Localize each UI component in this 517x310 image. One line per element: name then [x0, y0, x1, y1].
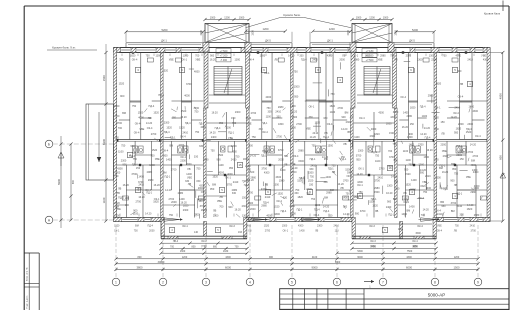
svg-text:1400: 1400	[299, 230, 305, 233]
svg-text:7: 7	[382, 280, 384, 284]
svg-text:2300: 2300	[164, 121, 170, 124]
svg-text:8: 8	[434, 280, 436, 284]
svg-text:УВЕ: УВЕ	[228, 137, 233, 140]
svg-text:163: 163	[238, 231, 243, 234]
svg-text:1100: 1100	[102, 197, 106, 203]
svg-text:4: 4	[249, 280, 251, 284]
svg-text:ПД-1: ПД-1	[118, 197, 124, 200]
svg-text:ПД-1: ПД-1	[158, 94, 164, 97]
svg-text:1400: 1400	[469, 105, 475, 108]
svg-text:2300: 2300	[183, 209, 189, 212]
svg-text:4300: 4300	[292, 116, 298, 119]
svg-text:330: 330	[435, 128, 440, 131]
svg-text:14.20: 14.20	[470, 144, 477, 147]
svg-text:1520: 1520	[114, 225, 120, 228]
svg-text:900: 900	[249, 144, 254, 147]
svg-text:1520: 1520	[246, 117, 252, 120]
svg-text:ВМ: ВМ	[212, 184, 216, 187]
svg-text:4000: 4000	[200, 126, 206, 129]
svg-text:800: 800	[192, 246, 197, 249]
svg-text:ЛВ: ЛВ	[315, 230, 319, 233]
svg-text:ОК-1: ОК-1	[358, 167, 364, 170]
svg-text:1300: 1300	[424, 156, 430, 159]
svg-text:3400: 3400	[370, 246, 376, 249]
svg-text:4000: 4000	[138, 117, 144, 120]
svg-text:16.20: 16.20	[402, 126, 409, 129]
svg-text:150: 150	[297, 179, 302, 182]
svg-text:16.20: 16.20	[201, 209, 208, 212]
svg-text:900: 900	[457, 70, 462, 73]
svg-text:16.20: 16.20	[180, 116, 187, 119]
svg-text:330: 330	[199, 145, 204, 148]
svg-text:1820: 1820	[456, 128, 462, 131]
svg-text:ПД-1: ПД-1	[165, 175, 171, 178]
note krovlya balk left	[47, 46, 97, 51]
svg-text:1400: 1400	[138, 175, 144, 178]
svg-text:1400: 1400	[401, 213, 407, 216]
svg-text:3700: 3700	[186, 83, 192, 86]
svg-text:ОК-1: ОК-1	[403, 201, 409, 204]
interior cross walls	[161, 53, 437, 218]
svg-text:2980: 2980	[148, 179, 154, 182]
svg-text:2700: 2700	[337, 107, 343, 110]
svg-text:2000: 2000	[186, 163, 192, 166]
svg-text:2410: 2410	[470, 225, 476, 228]
svg-text:1300: 1300	[149, 164, 155, 167]
svg-text:ОК-4: ОК-4	[147, 127, 153, 130]
svg-text:1500: 1500	[374, 191, 380, 194]
svg-text:4300: 4300	[472, 110, 478, 113]
svg-text:ПД-4: ПД-4	[323, 136, 329, 139]
svg-text:4000: 4000	[371, 128, 377, 131]
svg-text:ВМ: ВМ	[451, 163, 455, 166]
svg-text:1300: 1300	[387, 184, 393, 187]
svg-text:ЛВ: ЛВ	[275, 59, 279, 62]
wall junction blobs	[116, 51, 490, 176]
svg-text:1300: 1300	[417, 59, 423, 62]
svg-text:4300: 4300	[276, 176, 282, 179]
svg-text:6000: 6000	[357, 256, 363, 259]
svg-text:750: 750	[311, 198, 316, 201]
svg-text:2410: 2410	[231, 159, 237, 162]
svg-text:1100: 1100	[218, 164, 224, 167]
svg-text:1500: 1500	[354, 196, 360, 199]
svg-text:ПД-4: ПД-4	[149, 105, 155, 108]
svg-text:5: 5	[291, 280, 293, 284]
svg-text:4300: 4300	[378, 112, 384, 115]
svg-text:ПД-4: ПД-4	[457, 145, 463, 148]
svg-text:ВМ: ВМ	[324, 196, 328, 199]
svg-text:2980: 2980	[203, 158, 209, 161]
svg-text:700: 700	[195, 55, 200, 58]
svg-text:ПД-4: ПД-4	[281, 210, 287, 213]
svg-text:950: 950	[395, 188, 400, 191]
svg-text:1100: 1100	[354, 136, 360, 139]
corridor walls	[117, 140, 487, 142]
svg-text:ВМ: ВМ	[451, 210, 455, 213]
svg-text:4000: 4000	[315, 151, 321, 154]
svg-text:4300: 4300	[406, 256, 412, 259]
stair shaft A (axis 3)	[200, 16, 255, 52]
top balconies	[126, 38, 434, 47]
left vertical dimension 5900	[57, 136, 75, 228]
svg-text:2300: 2300	[431, 59, 437, 62]
svg-text:ПД-1: ПД-1	[310, 158, 316, 161]
svg-text:2000: 2000	[410, 188, 416, 191]
svg-text:3700: 3700	[280, 169, 286, 172]
svg-text:1100: 1100	[266, 115, 272, 118]
svg-text:ЛВ: ЛВ	[117, 192, 121, 195]
svg-text:+7.500: +7.500	[366, 59, 374, 62]
svg-text:ОК-4: ОК-4	[249, 59, 255, 62]
overall bottom dimension line	[114, 265, 479, 271]
svg-text:900: 900	[228, 206, 233, 209]
svg-text:2000: 2000	[386, 122, 392, 125]
svg-text:ЛВ: ЛВ	[460, 83, 464, 86]
svg-text:750: 750	[146, 55, 151, 58]
svg-text:ВМ: ВМ	[290, 200, 294, 203]
svg-text:2410: 2410	[437, 213, 443, 216]
svg-text:2: 2	[162, 280, 164, 284]
svg-text:ОК-1: ОК-1	[309, 105, 315, 108]
svg-text:2980: 2980	[354, 59, 360, 62]
svg-text:200: 200	[125, 197, 130, 200]
svg-text:1200: 1200	[182, 256, 188, 259]
svg-text:ЛВ: ЛВ	[454, 230, 458, 233]
svg-text:1000: 1000	[210, 16, 216, 19]
svg-text:5900: 5900	[57, 179, 61, 185]
svg-text:ЛВ: ЛВ	[248, 230, 252, 233]
svg-text:750: 750	[346, 193, 351, 196]
svg-text:1: 1	[115, 280, 117, 284]
svg-text:1200: 1200	[369, 16, 375, 19]
svg-text:150: 150	[115, 137, 120, 140]
svg-text:УВЕ: УВЕ	[195, 59, 200, 62]
svg-text:ЛВ: ЛВ	[213, 209, 217, 212]
svg-text:4000: 4000	[266, 215, 272, 218]
svg-text:1000: 1000	[383, 16, 389, 19]
svg-text:ПД-4: ПД-4	[164, 131, 170, 134]
svg-text:1500: 1500	[454, 265, 460, 269]
svg-text:3700: 3700	[227, 183, 233, 186]
svg-text:1400: 1400	[411, 179, 417, 182]
svg-text:16.20: 16.20	[291, 110, 298, 113]
svg-text:950: 950	[229, 167, 234, 170]
svg-text:900: 900	[269, 256, 274, 259]
svg-text:1520: 1520	[264, 225, 270, 228]
svg-text:4000: 4000	[499, 93, 503, 99]
svg-text:330: 330	[309, 168, 314, 171]
svg-text:900: 900	[341, 116, 346, 119]
svg-text:1520: 1520	[277, 192, 283, 195]
svg-text:700: 700	[421, 214, 426, 217]
svg-text:750: 750	[195, 131, 200, 134]
svg-text:ОК-1: ОК-1	[352, 55, 358, 58]
svg-text:ЛВ: ЛВ	[148, 117, 152, 120]
svg-text:2980: 2980	[374, 187, 380, 190]
top right fold mark	[484, 1, 503, 16]
svg-text:ОК-4: ОК-4	[293, 155, 299, 158]
svg-text:2700: 2700	[151, 133, 157, 136]
svg-text:16.20: 16.20	[386, 192, 393, 195]
svg-text:2700: 2700	[473, 155, 479, 158]
svg-text:2410: 2410	[182, 131, 188, 134]
svg-text:1500: 1500	[435, 177, 441, 180]
svg-text:3700: 3700	[471, 230, 477, 233]
svg-text:4100: 4100	[312, 256, 318, 259]
svg-text:1500: 1500	[294, 86, 300, 89]
svg-text:1000: 1000	[239, 16, 245, 19]
exterior left wall	[114, 48, 117, 222]
svg-text:1300: 1300	[156, 55, 162, 58]
svg-text:Подп. и дата: Подп. и дата	[27, 295, 29, 309]
svg-text:ОК-1: ОК-1	[283, 230, 289, 233]
svg-text:2000: 2000	[339, 59, 345, 62]
svg-text:Кровля балк. 9 эт.: Кровля балк. 9 эт.	[52, 46, 76, 50]
svg-text:ПД-4: ПД-4	[420, 106, 426, 109]
svg-text:14.20: 14.20	[343, 213, 350, 216]
svg-text:16.20: 16.20	[138, 196, 145, 199]
svg-text:14.20: 14.20	[337, 183, 344, 186]
svg-text:ПД-1: ПД-1	[262, 122, 268, 125]
svg-text:1520: 1520	[179, 127, 185, 130]
interior partitions	[117, 53, 487, 218]
svg-text:330: 330	[309, 116, 314, 119]
svg-text:3700: 3700	[116, 122, 122, 125]
svg-text:6000: 6000	[225, 265, 231, 269]
svg-text:ВМ: ВМ	[394, 159, 398, 162]
svg-text:2410: 2410	[313, 132, 319, 135]
svg-text:1500: 1500	[138, 112, 144, 115]
svg-text:2700: 2700	[468, 151, 474, 154]
svg-text:950: 950	[452, 168, 457, 171]
svg-text:ВМ: ВМ	[406, 210, 410, 213]
svg-text:ПД-1: ПД-1	[244, 184, 250, 187]
svg-text:150: 150	[435, 158, 440, 161]
bay labels	[169, 225, 423, 235]
svg-text:ЛВ: ЛВ	[118, 187, 122, 190]
svg-text:ОК-4: ОК-4	[132, 59, 138, 62]
svg-text:9000: 9000	[312, 265, 318, 269]
svg-text:УВЕ: УВЕ	[155, 158, 160, 161]
svg-text:5300: 5300	[357, 250, 363, 253]
svg-text:950: 950	[404, 169, 409, 172]
svg-text:2980: 2980	[428, 95, 434, 98]
svg-text:2980: 2980	[261, 204, 267, 207]
svg-text:14.20: 14.20	[145, 212, 152, 215]
svg-text:30800: 30800	[158, 261, 165, 264]
svg-text:ОК-1: ОК-1	[225, 177, 231, 180]
svg-text:УВЕ: УВЕ	[187, 176, 192, 179]
svg-text:ВМ: ВМ	[440, 201, 444, 204]
svg-text:ВМ: ВМ	[135, 225, 139, 228]
svg-text:ДК-1: ДК-1	[327, 38, 333, 42]
svg-text:750: 750	[311, 144, 316, 147]
svg-text:4300: 4300	[264, 172, 270, 175]
svg-text:14.20: 14.20	[146, 122, 153, 125]
svg-text:14.20: 14.20	[250, 154, 257, 157]
svg-text:1520: 1520	[308, 179, 314, 182]
stairwell A treads	[204, 53, 250, 109]
svg-text:150: 150	[172, 116, 177, 119]
svg-text:950: 950	[130, 145, 135, 148]
svg-text:ОК-4: ОК-4	[458, 96, 464, 99]
svg-text:16.20: 16.20	[426, 149, 433, 152]
bay sill lines	[165, 223, 432, 225]
svg-text:2410: 2410	[457, 205, 463, 208]
svg-text:2980: 2980	[406, 115, 412, 118]
svg-text:1820: 1820	[330, 105, 336, 108]
svg-text:1520: 1520	[162, 69, 168, 72]
svg-text:1200: 1200	[329, 27, 335, 31]
svg-text:2410: 2410	[425, 175, 431, 178]
svg-text:900: 900	[450, 180, 455, 183]
svg-text:ПД-4: ПД-4	[185, 122, 191, 125]
svg-text:1100: 1100	[118, 150, 124, 153]
svg-text:2700: 2700	[291, 171, 297, 174]
svg-text:Кровля балк: Кровля балк	[484, 12, 501, 16]
svg-text:16.20: 16.20	[235, 208, 242, 211]
svg-text:УВЕ: УВЕ	[139, 128, 144, 131]
svg-text:900: 900	[123, 163, 128, 166]
svg-text:750: 750	[455, 225, 460, 228]
exterior bottom wall	[114, 218, 491, 222]
svg-text:ДК-1: ДК-1	[161, 38, 167, 42]
svg-text:700: 700	[170, 246, 175, 249]
svg-text:4300: 4300	[289, 205, 295, 208]
svg-text:3800: 3800	[137, 265, 143, 269]
svg-text:140: 140	[194, 231, 199, 234]
svg-text:950: 950	[210, 188, 215, 191]
svg-text:1430: 1430	[223, 250, 229, 253]
svg-text:3700: 3700	[131, 173, 137, 176]
svg-text:ОК-4: ОК-4	[347, 171, 353, 174]
svg-text:150: 150	[136, 167, 141, 170]
svg-text:ОК-4: ОК-4	[400, 96, 406, 99]
svg-text:2980: 2980	[470, 191, 476, 194]
svg-text:1520: 1520	[166, 127, 172, 130]
svg-text:14.20: 14.20	[248, 179, 255, 182]
svg-text:750: 750	[310, 175, 315, 178]
svg-text:900: 900	[355, 213, 360, 216]
left axis bubble Б	[45, 140, 113, 148]
svg-text:ВМ: ВМ	[345, 112, 349, 115]
svg-text:ОК-4: ОК-4	[276, 200, 282, 203]
svg-text:950: 950	[324, 158, 329, 161]
svg-text:330: 330	[194, 156, 199, 159]
svg-text:ПД-1: ПД-1	[388, 213, 394, 216]
svg-text:1400: 1400	[422, 115, 428, 118]
svg-text:3700: 3700	[374, 179, 380, 182]
svg-text:ОК-4: ОК-4	[435, 209, 441, 212]
svg-text:5300: 5300	[335, 261, 341, 264]
svg-text:ОК-1: ОК-1	[201, 191, 207, 194]
svg-text:700: 700	[118, 127, 123, 130]
svg-text:750: 750	[442, 55, 447, 58]
svg-text:5000-АР: 5000-АР	[428, 293, 446, 298]
svg-text:2980: 2980	[298, 149, 304, 152]
right vertical dimension	[491, 51, 506, 223]
svg-text:750: 750	[133, 158, 138, 161]
svg-text:750: 750	[115, 115, 120, 118]
svg-text:4300: 4300	[473, 171, 479, 174]
svg-text:2700: 2700	[379, 168, 385, 171]
svg-text:1300: 1300	[180, 250, 186, 253]
top dimension chains	[124, 27, 435, 42]
lower dimension chains	[114, 240, 479, 265]
svg-text:6000: 6000	[406, 265, 412, 269]
svg-text:900: 900	[387, 201, 392, 204]
svg-text:2700: 2700	[114, 215, 120, 218]
svg-text:ОК-4: ОК-4	[346, 175, 352, 178]
svg-text:ОК-4: ОК-4	[135, 123, 141, 126]
svg-text:3700: 3700	[360, 210, 366, 213]
svg-text:3700: 3700	[261, 167, 267, 170]
svg-text:ДК-5: ДК-5	[265, 38, 271, 42]
svg-text:1100: 1100	[403, 150, 409, 153]
svg-text:2300: 2300	[458, 123, 464, 126]
svg-text:ОК-2: ОК-2	[201, 240, 207, 243]
svg-text:950: 950	[294, 95, 299, 98]
svg-text:ОК-4: ОК-4	[453, 112, 459, 115]
svg-text:1500: 1500	[369, 201, 375, 204]
svg-text:ПД-1: ПД-1	[228, 132, 234, 135]
svg-text:1500: 1500	[252, 30, 255, 36]
svg-text:ОК-3: ОК-3	[369, 225, 375, 228]
svg-text:750: 750	[211, 149, 216, 152]
svg-text:1400: 1400	[342, 197, 348, 200]
svg-text:2700: 2700	[418, 143, 424, 146]
svg-text:3: 3	[205, 280, 207, 284]
svg-text:1300: 1300	[234, 59, 240, 62]
svg-text:1300: 1300	[242, 214, 248, 217]
svg-text:ПД-4: ПД-4	[301, 59, 307, 62]
svg-text:1520: 1520	[315, 121, 321, 124]
svg-text:ЛВ: ЛВ	[394, 59, 398, 62]
svg-text:750: 750	[358, 191, 363, 194]
svg-text:1500: 1500	[327, 144, 333, 147]
svg-text:ВМ: ВМ	[393, 198, 397, 201]
svg-text:750: 750	[423, 191, 428, 194]
svg-text:ОК-4: ОК-4	[359, 117, 365, 120]
window sill ticks	[120, 54, 481, 217]
svg-text:2700: 2700	[251, 112, 257, 115]
entrance ramps	[162, 218, 440, 222]
svg-text:1300: 1300	[231, 145, 237, 148]
svg-text:1500: 1500	[242, 197, 248, 200]
svg-text:1820: 1820	[130, 55, 136, 58]
svg-text:2000: 2000	[114, 105, 120, 108]
svg-text:1520: 1520	[153, 112, 159, 115]
svg-text:2300: 2300	[317, 225, 323, 228]
svg-text:4300: 4300	[219, 172, 225, 175]
svg-text:ОК-1: ОК-1	[435, 107, 441, 110]
svg-text:1820: 1820	[436, 83, 442, 86]
svg-text:1400: 1400	[425, 187, 431, 190]
svg-text:1520: 1520	[405, 173, 411, 176]
svg-text:5200: 5200	[162, 28, 168, 32]
svg-text:УВЕ: УВЕ	[437, 225, 442, 228]
svg-text:1300: 1300	[429, 55, 435, 58]
svg-text:2000: 2000	[149, 230, 155, 233]
svg-text:1300: 1300	[290, 105, 296, 108]
svg-text:1200: 1200	[224, 16, 230, 19]
svg-text:ЛВ: ЛВ	[265, 183, 269, 186]
svg-text:750: 750	[306, 192, 311, 195]
svg-text:УВЕ: УВЕ	[481, 55, 486, 58]
svg-text:900: 900	[420, 172, 425, 175]
svg-text:1500: 1500	[308, 172, 314, 175]
